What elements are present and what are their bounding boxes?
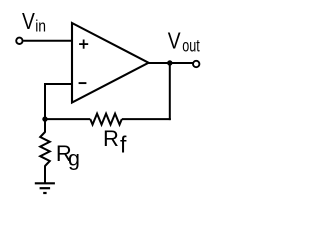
label Rf — [103, 126, 127, 158]
resistor Rf (horizontal zigzag) — [90, 114, 122, 125]
wire: Vin terminal to op-amp non-inverting input — [23, 40, 72, 42]
wire: Rg bottom lead to ground — [44, 166, 46, 184]
resistor Rg (vertical zigzag) — [40, 132, 50, 166]
ground symbol — [35, 183, 55, 193]
wire: inverting input down to feedback node — [44, 83, 46, 120]
svg-text:f: f — [120, 132, 127, 158]
node: output junction dot — [167, 60, 172, 65]
wire: feedback riser up to output node — [169, 63, 171, 120]
op-amp U1 triangle — [72, 23, 149, 103]
input terminal (open circle) Vin — [16, 38, 22, 44]
label Vout — [168, 28, 201, 56]
output terminal (open circle) Vout — [193, 61, 199, 67]
svg-text:in: in — [35, 17, 46, 36]
node: feedback junction dot — [42, 116, 47, 121]
wire: node down to Rg top lead — [44, 118, 46, 132]
svg-text:V: V — [22, 8, 35, 34]
op-amp non-inverting input + sign — [79, 40, 88, 49]
svg-text:V: V — [168, 28, 181, 54]
wire: inverting input horizontal segment — [44, 83, 72, 85]
label Rg — [56, 141, 80, 170]
wire: op-amp output to Vout terminal — [148, 62, 194, 64]
op-amp inverting input - sign — [79, 82, 87, 84]
svg-text:R: R — [103, 126, 119, 151]
wire: node to Rf left lead — [45, 118, 90, 120]
label Vin — [22, 8, 46, 36]
svg-text:g: g — [68, 146, 80, 170]
svg-text:out: out — [182, 37, 200, 57]
wire: Rf right lead to feedback riser — [122, 118, 171, 120]
